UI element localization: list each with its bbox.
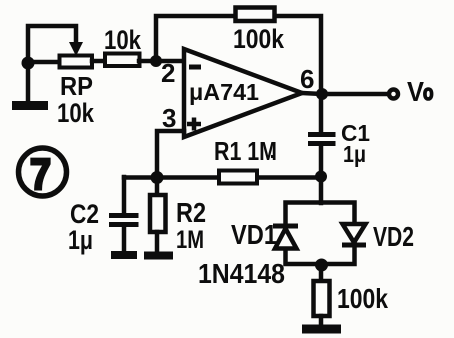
wire 10k to inverting input node — [139, 59, 184, 64]
node middle-right junction dot — [315, 171, 327, 183]
capacitor C1 plates — [308, 132, 336, 137]
wire diode loop box — [286, 203, 355, 265]
ground (below R2) — [144, 252, 173, 260]
resistor 100k (bottom) body — [314, 281, 330, 316]
svg-text:RP: RP — [60, 71, 93, 101]
op-amp plus sign (pin 3) — [187, 118, 201, 131]
svg-text:1μ: 1μ — [68, 225, 93, 255]
wire R2 bottom to ground — [155, 232, 160, 252]
wire op-amp output stub — [302, 93, 322, 94]
svg-text:3: 3 — [162, 103, 176, 133]
resistor R2 body — [150, 195, 166, 232]
svg-text:VD1: VD1 — [231, 219, 277, 250]
node pin3/R2 junction dot — [151, 171, 164, 184]
wire middle horizontal (R1 net) — [124, 175, 321, 180]
wire RP to 10k resistor — [92, 59, 106, 64]
svg-text:100k: 100k — [337, 283, 388, 314]
ground (below C2) — [111, 251, 137, 259]
svg-text:2: 2 — [161, 58, 175, 88]
node pin2 junction dot — [150, 55, 162, 67]
wire C2 to ground — [122, 227, 127, 252]
diode VD2 (cathode down) — [343, 224, 366, 243]
ground (left, below node A) — [12, 101, 48, 110]
resistor 10k (input) body — [105, 54, 140, 67]
capacitor C2 plates — [109, 213, 139, 218]
wire middle node down to diode box — [319, 177, 324, 203]
svg-text:1M: 1M — [176, 226, 204, 254]
resistor feedback 100k body — [236, 8, 275, 22]
wire C1 to middle node — [319, 146, 324, 177]
node diode bottom junction dot — [315, 259, 328, 272]
label R1 1M trailing dot — [271, 155, 274, 158]
wire output node down to C1 — [319, 94, 324, 132]
wire node A to RP left lead — [28, 60, 60, 65]
wire pin3 stub and vertical down — [157, 131, 184, 177]
svg-text:V: V — [407, 76, 424, 107]
svg-text:100k: 100k — [233, 24, 285, 54]
resistor R1 body — [219, 171, 257, 184]
op-amp U1 triangle — [184, 49, 302, 137]
wire R2 top stub — [155, 177, 160, 196]
wire output to Vo terminal — [322, 92, 388, 97]
wire C2 branch: left end down to C2 — [122, 177, 127, 213]
svg-text:R2: R2 — [176, 197, 206, 228]
potentiometer RP wiper arrow — [69, 42, 83, 56]
wire node A to ground stem — [26, 64, 31, 100]
svg-text:10k: 10k — [104, 25, 142, 55]
wire feedback left vertical — [156, 16, 234, 61]
potentiometer RP body — [60, 56, 93, 68]
ground (bottom) — [302, 325, 341, 334]
svg-text:7: 7 — [30, 150, 51, 199]
svg-text:1N4148: 1N4148 — [198, 258, 285, 289]
svg-text:10k: 10k — [57, 98, 95, 128]
svg-text:μA741: μA741 — [189, 79, 259, 105]
wire wiper loop from node A up over to pot arrow — [28, 26, 76, 64]
figure number 7 circle — [19, 148, 67, 196]
node output junction dot — [316, 88, 328, 100]
svg-text:6: 6 — [300, 64, 314, 94]
svg-text:R1 1M: R1 1M — [214, 136, 277, 166]
wire feedback right down to output node — [276, 16, 321, 94]
svg-text:o: o — [423, 80, 434, 105]
svg-text:1μ: 1μ — [343, 141, 366, 167]
op-amp minus sign (pin 2) — [189, 65, 201, 70]
wire diode box to 100k resistor — [319, 265, 324, 282]
diode VD1 (cathode up) — [273, 224, 298, 229]
node A junction dot — [22, 57, 35, 70]
output terminal Vo open circle — [389, 90, 398, 99]
wire 100k to ground — [319, 316, 324, 326]
svg-text:VD2: VD2 — [373, 221, 414, 252]
